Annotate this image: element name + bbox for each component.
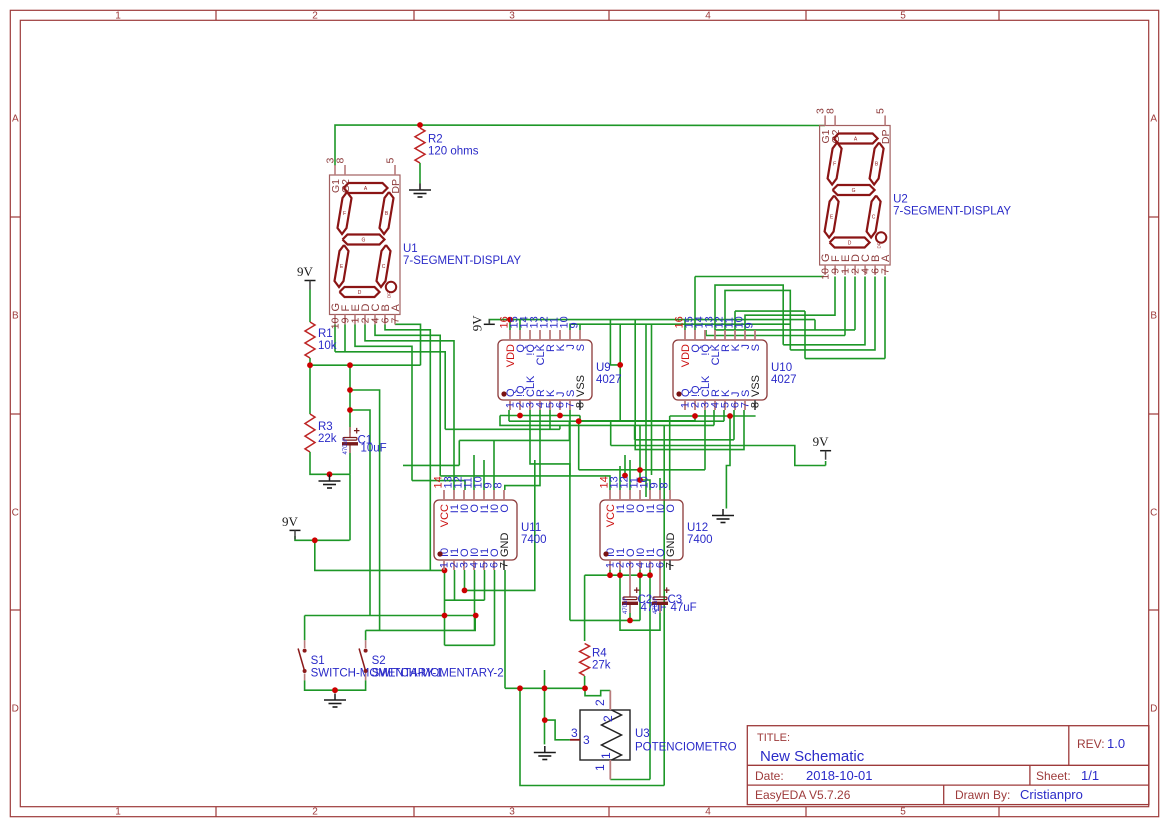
svg-text:A: A: [12, 114, 19, 125]
svg-text:7: 7: [499, 562, 511, 568]
svg-text:470uF: 470uF: [343, 437, 349, 454]
svg-text:REV:: REV:: [1077, 737, 1105, 751]
svg-text:U10: U10: [771, 362, 792, 374]
svg-text:G: G: [852, 188, 856, 194]
svg-text:O: O: [499, 504, 511, 513]
svg-text:D: D: [848, 241, 852, 247]
svg-text:Date:: Date:: [755, 769, 784, 783]
svg-text:B: B: [385, 211, 389, 217]
svg-text:A: A: [1150, 114, 1157, 125]
svg-text:U2: U2: [893, 194, 908, 206]
svg-text:S: S: [575, 344, 587, 351]
svg-text:GND: GND: [499, 533, 511, 558]
svg-text:GND: GND: [665, 533, 677, 558]
svg-text:C: C: [1150, 508, 1157, 519]
svg-text:B: B: [1150, 311, 1157, 322]
svg-text:8: 8: [335, 158, 347, 164]
svg-text:5: 5: [385, 158, 397, 164]
svg-text:8: 8: [493, 482, 505, 488]
svg-text:Cristianpro: Cristianpro: [1020, 787, 1083, 802]
svg-text:470uF: 470uF: [653, 597, 659, 614]
svg-text:G: G: [362, 238, 366, 244]
svg-text:New Schematic: New Schematic: [760, 748, 865, 765]
svg-text:A: A: [390, 304, 402, 312]
svg-text:470uF: 470uF: [623, 597, 629, 614]
svg-text:2018-10-01: 2018-10-01: [806, 768, 873, 783]
svg-text:9V: 9V: [469, 315, 484, 332]
svg-text:7: 7: [390, 317, 402, 323]
svg-text:8: 8: [659, 482, 671, 488]
svg-text:DP: DP: [387, 292, 392, 298]
svg-text:D: D: [1150, 704, 1157, 715]
svg-text:8: 8: [575, 402, 587, 408]
svg-text:1.0: 1.0: [1107, 736, 1125, 751]
svg-text:S2: S2: [372, 655, 386, 667]
svg-text:22k: 22k: [318, 433, 337, 445]
svg-text:VSS: VSS: [575, 375, 587, 397]
svg-text:10k: 10k: [318, 340, 337, 352]
svg-text:1/1: 1/1: [1081, 768, 1099, 783]
svg-text:C: C: [12, 508, 19, 519]
svg-text:9: 9: [744, 322, 756, 328]
svg-text:O: O: [665, 504, 677, 513]
svg-text:3: 3: [509, 807, 515, 818]
svg-text:8: 8: [825, 108, 837, 114]
svg-text:EasyEDA V5.7.26: EasyEDA V5.7.26: [755, 788, 851, 802]
svg-text:8: 8: [750, 402, 762, 408]
svg-text:B: B: [12, 311, 19, 322]
svg-text:D: D: [358, 290, 362, 296]
svg-text:A: A: [854, 137, 858, 143]
svg-text:U12: U12: [687, 522, 708, 534]
svg-text:C: C: [872, 215, 876, 221]
svg-text:1: 1: [115, 11, 121, 22]
svg-text:DP: DP: [877, 242, 882, 248]
svg-text:A: A: [880, 254, 892, 262]
svg-text:4: 4: [705, 11, 711, 22]
svg-text:9V: 9V: [813, 434, 830, 449]
svg-text:7400: 7400: [521, 534, 547, 546]
svg-text:7: 7: [880, 268, 892, 274]
svg-text:2: 2: [312, 11, 318, 22]
svg-text:3: 3: [583, 733, 590, 747]
svg-text:10uF: 10uF: [361, 443, 387, 455]
svg-text:120 ohms: 120 ohms: [428, 146, 479, 158]
svg-text:5: 5: [900, 807, 906, 818]
svg-text:7: 7: [665, 562, 677, 568]
svg-text:1: 1: [599, 752, 613, 759]
svg-text:4027: 4027: [771, 374, 797, 386]
svg-text:E: E: [830, 215, 834, 221]
svg-text:SWITCH-MOMENTARY-2: SWITCH-MOMENTARY-2: [372, 668, 504, 680]
svg-text:S1: S1: [311, 655, 325, 667]
svg-text:C: C: [382, 264, 386, 270]
svg-text:3: 3: [571, 726, 578, 740]
svg-text:47uF: 47uF: [671, 602, 697, 614]
svg-text:D: D: [12, 704, 19, 715]
svg-text:2: 2: [601, 715, 615, 722]
svg-text:7-SEGMENT-DISPLAY: 7-SEGMENT-DISPLAY: [403, 255, 521, 267]
svg-text:9V: 9V: [297, 264, 314, 279]
svg-text:9: 9: [569, 322, 581, 328]
svg-text:5: 5: [900, 11, 906, 22]
svg-text:4027: 4027: [596, 374, 622, 386]
svg-text:7-SEGMENT-DISPLAY: 7-SEGMENT-DISPLAY: [893, 206, 1011, 218]
svg-text:DP: DP: [390, 179, 402, 194]
svg-text:4: 4: [705, 807, 711, 818]
svg-text:U11: U11: [521, 522, 541, 534]
svg-text:1: 1: [593, 764, 607, 771]
svg-text:R2: R2: [428, 134, 443, 146]
svg-text:7400: 7400: [687, 534, 713, 546]
svg-text:S: S: [750, 344, 762, 351]
svg-text:E: E: [340, 264, 344, 270]
svg-text:A: A: [364, 186, 368, 192]
svg-text:U1: U1: [403, 243, 418, 255]
svg-text:Drawn By:: Drawn By:: [955, 788, 1010, 802]
svg-text:R3: R3: [318, 421, 333, 433]
svg-text:F: F: [343, 211, 346, 217]
svg-text:2: 2: [593, 699, 607, 706]
svg-text:3: 3: [509, 11, 515, 22]
svg-text:POTENCIOMETRO: POTENCIOMETRO: [635, 742, 737, 754]
svg-text:1: 1: [115, 807, 121, 818]
svg-text:VSS: VSS: [750, 375, 762, 397]
svg-text:2: 2: [312, 807, 318, 818]
svg-text:27k: 27k: [592, 660, 611, 672]
svg-text:Sheet:: Sheet:: [1036, 769, 1071, 783]
svg-text:R4: R4: [592, 648, 607, 660]
svg-text:U3: U3: [635, 728, 650, 740]
svg-text:B: B: [875, 162, 879, 168]
svg-text:U9: U9: [596, 362, 611, 374]
svg-text:TITLE:: TITLE:: [757, 732, 790, 744]
svg-text:F: F: [833, 162, 836, 168]
svg-text:9V: 9V: [282, 514, 299, 529]
svg-text:5: 5: [875, 108, 887, 114]
svg-text:DP: DP: [880, 130, 892, 145]
